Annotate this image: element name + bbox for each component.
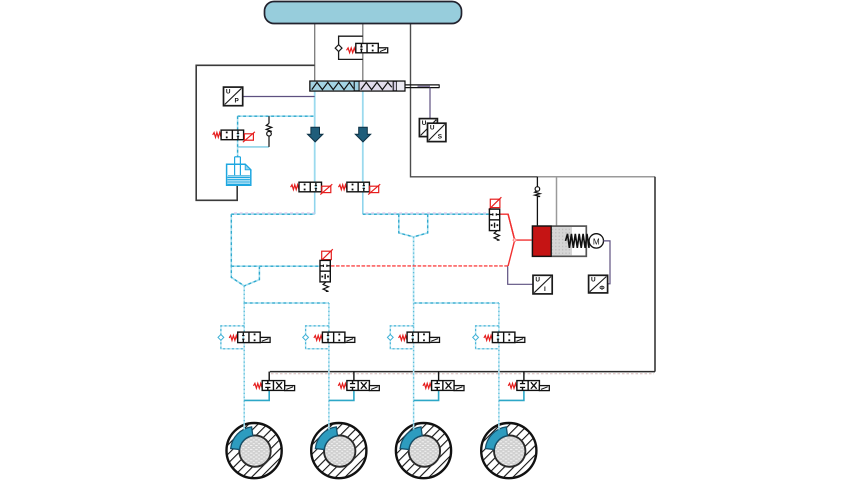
valve V3 red solenoid symbol (320, 184, 332, 194)
valve V4 red solenoid symbol (368, 184, 380, 194)
wire brake branch 4 vertical (498, 303, 500, 430)
valve outlet FL spring (254, 383, 263, 388)
wire circuit 1 below isolation valve (314, 192, 316, 215)
wire brake branch 1 vertical (243, 303, 245, 430)
valve outlet FL solenoid (285, 386, 295, 391)
wire outlet RL riser (438, 372, 440, 381)
valve inlet FL solenoid (260, 337, 270, 342)
wire return line bottom horizontal (270, 371, 655, 373)
check valve CV2 pump suction (535, 177, 540, 226)
valve V6 red solenoid symbol (320, 249, 333, 261)
valve V2 red solenoid symbol (243, 132, 255, 142)
valve inlet FR spring (314, 336, 323, 341)
svg-text:S: S (438, 134, 443, 141)
svg-text:Φ: Φ (599, 285, 605, 292)
sensor U/Phi speed sensor (589, 275, 608, 293)
wire outlet RL tap (414, 390, 439, 400)
check valve CV1 (266, 116, 271, 147)
valve inlet RL bypass loop (390, 326, 413, 349)
valve V1 pedal bypass loop (339, 36, 363, 45)
valve outlet FL body (262, 381, 285, 391)
svg-text:U: U (226, 89, 231, 96)
wire outlet RR riser (523, 372, 525, 381)
wire return line right vertical (654, 177, 656, 372)
wire circuit 2 funnel left wall (399, 214, 414, 237)
sensor U/S travel sensor (428, 123, 446, 141)
valve V1 spring (347, 48, 356, 53)
pump unit (533, 226, 590, 256)
wire outlet FL riser (268, 372, 270, 381)
wire circuit 1 manifold horizontal (231, 213, 314, 215)
wire circuit 1 funnel left wall (231, 214, 244, 286)
brake pedal (265, 2, 462, 24)
sensor U/P wire (243, 96, 315, 98)
sensor U/I current sensor (533, 275, 552, 294)
valve outlet RL body (432, 381, 455, 391)
node inlet RR check diamond (473, 335, 479, 341)
sensor U/S back box (419, 119, 437, 137)
wire check valve bypass bottom (238, 146, 269, 148)
wire return line shadow dashed (271, 373, 654, 375)
wire circuit 1 funnel right wall (244, 266, 259, 286)
valve inlet FR bypass loop (306, 326, 329, 349)
wheel RL (396, 423, 451, 478)
wire brake branch 2 vertical (328, 303, 330, 430)
node inlet RL check diamond (387, 335, 393, 341)
svg-text:P: P (235, 98, 240, 105)
sensor U/Phi wire (603, 241, 610, 284)
valve V5 spring (494, 231, 499, 240)
wire red pump return slant (331, 265, 508, 267)
wheel RR (481, 423, 536, 478)
valve inlet RR spring (484, 336, 493, 341)
valve V4 spring (339, 185, 347, 190)
valve outlet RR spring (508, 383, 517, 388)
valve V5 body (489, 209, 499, 231)
master cylinder body (310, 81, 405, 91)
wire grey manifold top right (537, 176, 655, 178)
wire brake branch 3 vertical (413, 237, 415, 430)
sensor U/P pressure sensor (224, 87, 243, 106)
wire outlet FL tap (244, 390, 269, 400)
valve outlet FR body (347, 381, 370, 391)
node junction master cylinder port 2 line (362, 91, 364, 182)
valve inlet FL bypass loop (221, 326, 244, 349)
wire circuit 2 split horizontal (414, 302, 499, 304)
sensor U/I wire (508, 266, 533, 284)
wire circuit 2 funnel stem (413, 237, 415, 303)
valve inlet FL spring (229, 336, 238, 341)
sensor U/S wire (429, 88, 431, 119)
valve V5 red solenoid symbol (489, 197, 502, 209)
wire circuit 2 below isolation valve (362, 192, 364, 215)
valve inlet FR body (322, 332, 345, 343)
wire outlet FR tap (329, 390, 354, 400)
valve V3 spring (291, 185, 299, 190)
valve inlet FR solenoid (345, 337, 355, 342)
svg-text:U: U (591, 277, 596, 284)
accumulator (227, 157, 251, 186)
wire circuit 1 split horizontal (244, 302, 329, 304)
motor M (589, 234, 603, 248)
wire reservoir return dark loop (196, 65, 315, 200)
valve V2 spring (213, 133, 221, 138)
valve V4 body (347, 182, 370, 192)
valve inlet RL spring (399, 336, 408, 341)
svg-text:U: U (535, 277, 540, 284)
wire master cylinder chamber1 tap horizontal (238, 115, 315, 117)
wire pedal line middle (362, 23, 364, 81)
valve V2 body (221, 130, 244, 140)
flow arrow 1 (308, 127, 323, 142)
valve inlet RR bypass loop (476, 326, 499, 349)
node junction master cylinder port 1 line (314, 91, 316, 182)
valve inlet RR solenoid (515, 337, 525, 342)
master cylinder spring chamber 1 (312, 82, 354, 89)
wheel FL (227, 423, 282, 478)
node V1 diamond (335, 45, 342, 52)
valve inlet RL body (407, 332, 430, 343)
wire red pump suction line (500, 214, 533, 240)
svg-text:I: I (544, 286, 546, 293)
valve V3 body (299, 182, 322, 192)
valve inlet FL body (238, 332, 261, 343)
wire pilot line to changeover valve (231, 265, 320, 267)
valve V1 solenoid (378, 48, 387, 53)
node red junction (513, 238, 517, 242)
valve V6 spring (323, 282, 328, 291)
wire circuit 2 manifold horizontal (363, 213, 489, 215)
wire circuit 1 funnel stem (243, 286, 245, 303)
svg-text:U: U (430, 125, 435, 132)
flow arrow 2 (355, 127, 370, 142)
master cylinder push rod (405, 84, 439, 88)
wire outlet FR riser (353, 372, 355, 381)
valve outlet RL spring (423, 383, 432, 388)
wheel FR (311, 423, 366, 478)
wire pedal line left (pedal to master cylinder) (314, 23, 316, 81)
valve outlet FR solenoid (369, 386, 379, 391)
wire pedal line right (down to return manifold) (411, 23, 538, 177)
valve inlet RL solenoid (430, 337, 440, 342)
wire circuit 2 funnel right wall (414, 214, 428, 237)
valve outlet FR spring (338, 383, 347, 388)
svg-text:M: M (593, 237, 600, 246)
valve outlet RR solenoid (539, 386, 549, 391)
valve outlet RL solenoid (454, 386, 464, 391)
valve V6 body (320, 260, 330, 282)
master cylinder spring chamber 2 (361, 82, 392, 89)
node inlet FR check diamond (303, 335, 309, 341)
wire outlet RR tap (499, 390, 524, 400)
valve V1 body (356, 43, 379, 52)
wire accumulator feed vertical (237, 116, 239, 157)
node inlet FL check diamond (218, 335, 224, 341)
valve outlet RR body (517, 381, 540, 391)
wire pump drive grey (556, 177, 558, 226)
valve inlet RR body (492, 332, 515, 343)
svg-text:U: U (422, 120, 427, 127)
